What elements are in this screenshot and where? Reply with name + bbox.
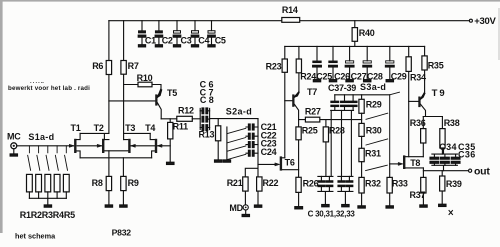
svg-text:R30: R30 [366,126,382,136]
wire MC to T1/T2 gates [17,145,102,147]
transistor T9 [409,88,447,117]
resistor R2 [36,174,42,198]
resistor R4 [54,174,60,198]
switch S2a-d [226,106,252,159]
svg-text:R27: R27 [305,106,321,116]
capacitor C25 [313,46,333,81]
resistor R22 [257,177,279,205]
capacitor C36 [432,150,476,171]
ground (S2) [223,160,230,162]
ground (C1) [138,45,145,47]
resistor R37 [410,168,427,205]
svg-text:R21: R21 [227,178,243,188]
resistor R35 [422,46,444,91]
svg-text:C5: C5 [215,35,226,45]
capacitor C32/C33 group [338,110,353,204]
ground (R39) [439,204,446,206]
svg-text:C 30,31,32,33: C 30,31,32,33 [308,209,356,218]
switch S1a-d [28,132,68,171]
svg-text:R29: R29 [366,100,382,110]
resistor R13 [199,119,221,160]
capacitor C4 [191,21,209,46]
svg-text:R31: R31 [365,148,381,158]
svg-text:R1R2R3R4R5: R1R2R3R4R5 [20,210,75,220]
svg-text:R8: R8 [92,178,103,188]
ground (R8) [105,205,112,207]
resistor R8 [92,151,112,205]
svg-text:R35: R35 [428,61,444,71]
svg-text:C3: C3 [181,35,192,45]
capacitor C24 [246,147,277,157]
svg-text:C8: C8 [200,95,216,105]
wire T7 collector node [299,119,362,121]
wire T5 base from R6 trunk [109,100,155,102]
ground (R33) [386,206,393,208]
svg-text:T7: T7 [307,87,317,97]
resistor R21 [227,177,248,205]
transistor T3 [124,123,155,153]
ground (MD) [242,214,249,216]
wire node A down to T6 base [258,119,277,165]
svg-text:T2: T2 [94,123,104,133]
wire T3/T4 drains [124,133,151,139]
svg-text:T1: T1 [71,123,81,133]
resistor R12 [177,106,200,122]
svg-text:C24: C24 [261,147,277,157]
wire T1/T2 drains [80,133,109,139]
svg-text:+30V: +30V [474,16,496,27]
svg-text:R12: R12 [178,106,194,116]
resistor R11 [168,119,189,162]
svg-text:R14: R14 [282,5,298,15]
svg-text:R39: R39 [446,179,462,189]
capacitor C35 [441,142,476,165]
svg-text:R11: R11 [173,121,189,131]
capacitor C6 [200,79,216,129]
capacitor C7 [200,87,216,122]
resistor R33 [387,164,408,206]
svg-text:T8: T8 [410,158,420,168]
resistor R25 [296,120,318,178]
resistor R26 [296,177,319,206]
svg-text:R40: R40 [359,28,375,38]
svg-text:R32: R32 [365,179,381,189]
resistor R28 [323,120,345,177]
node +30V terminal [469,16,496,27]
wire signal node A [210,118,258,120]
svg-text:R36: R36 [410,118,426,128]
capacitor C37-39 group [328,83,390,110]
capacitor C1 [138,21,156,46]
transistor T8 [390,155,424,169]
ground (R37) [420,205,427,207]
svg-text:S1a-d: S1a-d [28,132,54,142]
svg-text:R22: R22 [263,178,279,188]
ground (C27) [346,80,353,82]
wire R21/R22 tee [245,164,258,177]
wire T9 emitter node [423,116,442,118]
capacitor C27 [345,46,366,81]
capacitor C3 [173,21,192,46]
ground (R13) [215,160,222,162]
ground (C3) [173,45,180,47]
svg-text:R7: R7 [128,61,139,71]
resistor R1 [27,174,33,198]
ground (R11) [167,162,175,164]
ground (C32/33) [342,205,349,207]
capacitor C34 [430,142,457,165]
svg-text:MC: MC [7,132,21,142]
resistor R3 [45,174,51,198]
svg-text:MD: MD [229,203,243,213]
resistor R39 [440,171,462,205]
ground (C29) [386,80,393,82]
capacitor C23 [246,139,277,149]
svg-text:R6: R6 [92,61,103,71]
capacitor C29 [385,46,406,81]
node MC terminal [7,132,21,154]
svg-text:S3a-d: S3a-d [360,82,386,92]
capacitor C22 [246,131,277,141]
svg-text:R25: R25 [302,125,318,135]
resistor R32 [359,162,381,206]
transistor T5 [155,88,177,119]
wire supply rail +30V [109,20,469,22]
frame borders (decorative) [0,0,500,2]
capacitor C21 [246,122,277,132]
svg-text:R33: R33 [392,179,408,189]
resistor R6 [92,21,111,134]
transistor T1 [70,123,81,158]
svg-text:C36: C36 [458,150,476,160]
chassis mark [449,211,453,215]
wire bus (2nd stage supply) [285,45,425,47]
capacitor C26 [329,46,351,81]
resistor R31 [359,136,381,161]
wire output line [423,170,468,172]
ground (R22) [254,205,261,207]
capacitor C8 [200,95,216,130]
ground (C26) [329,80,336,82]
wire R1-R5 common [29,198,66,205]
transistor T6 [275,156,299,170]
resistor R24 [296,46,316,91]
ground (C2) [155,45,162,47]
ground (C25) [313,80,320,82]
svg-text:C37-39: C37-39 [328,83,356,93]
svg-text:R10: R10 [137,73,153,83]
capacitor C5 [208,21,226,46]
resistor R5 [63,174,69,198]
svg-text:R34: R34 [410,72,426,82]
svg-text:R9: R9 [128,178,139,188]
svg-text:R37: R37 [410,190,426,200]
ground (C4) [191,45,198,47]
resistor R27 [305,106,321,122]
node MD terminal [229,203,248,215]
transistor T4 [145,123,170,158]
svg-text:het schema: het schema [15,231,56,240]
wire T5 emitter node [161,118,177,120]
svg-text:P832: P832 [112,228,132,238]
svg-text:R38: R38 [444,118,460,128]
svg-text:S2a-d: S2a-d [226,106,252,116]
resistor R14 [282,5,300,22]
svg-text:R26: R26 [303,179,319,189]
svg-text:T6: T6 [285,157,295,167]
resistor R10 [124,73,161,88]
ground (R26) [295,207,303,209]
ground (R32) [358,206,365,208]
svg-text:T9: T9 [432,88,447,99]
resistor R38 [440,117,460,155]
transistor T2 [94,123,129,153]
svg-text:T3: T3 [125,123,135,133]
svg-text:R13: R13 [199,130,215,140]
svg-text:bewerkt voor het lab . radi: bewerkt voor het lab . radi [8,85,90,92]
resistor R34 [406,46,426,156]
svg-text:. . . . ..: . . . . .. [30,79,44,85]
ground (C28) [364,80,371,82]
ground (C30/31) [322,205,329,207]
capacitor C2 [155,21,173,46]
resistor R23 [266,46,288,157]
transistor T7 [285,87,317,120]
ground (R9) [120,205,127,207]
svg-text:C1: C1 [145,35,156,45]
resistor R7 [121,21,139,134]
svg-text:out: out [474,166,490,178]
resistor R9 [121,158,139,205]
ground (MC) [10,154,17,156]
svg-text:R23: R23 [266,61,282,71]
svg-text:T5: T5 [167,88,177,98]
node out terminal [469,166,491,178]
svg-text:C34: C34 [439,142,457,152]
capacitor C28 [363,46,383,81]
capacitor C30/C31 group [318,110,333,204]
svg-text:T4: T4 [145,123,155,133]
switch S3a-d [360,82,399,170]
resistor R30 [359,113,382,136]
wire sources rail [80,157,152,159]
resistor R40 [352,21,375,47]
resistor R36 [410,117,426,157]
ground (R1-R5) [44,205,51,207]
ground (C5) [208,45,215,47]
resistor R29 [359,95,382,114]
svg-text:C2: C2 [162,35,173,45]
